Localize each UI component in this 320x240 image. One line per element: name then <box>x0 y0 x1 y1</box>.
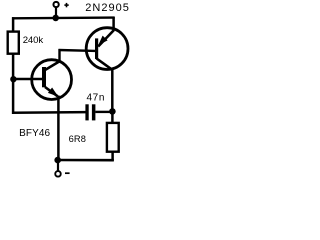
svg-text:47n: 47n <box>87 93 106 104</box>
wire Q2 collector vertical <box>111 69 114 112</box>
svg-text:2N2905: 2N2905 <box>85 2 130 14</box>
svg-text:6R8: 6R8 <box>69 134 87 144</box>
wire left vertical + bottom horizontal to capacitor <box>13 54 86 113</box>
wire 6R8 bottom to rail <box>111 152 114 162</box>
resistor R1 240k <box>8 32 19 54</box>
+ terminal <box>53 2 58 7</box>
svg-text:BFY46: BFY46 <box>19 128 50 139</box>
label - <box>65 172 70 174</box>
wire dot to 6R8 <box>111 111 114 122</box>
wire base of Q1 <box>13 78 43 81</box>
label + <box>64 3 68 7</box>
- terminal <box>57 160 59 171</box>
junction dot at - rail <box>54 157 61 164</box>
capacitor C1 47n <box>85 104 110 120</box>
wire bottom rail <box>57 159 114 162</box>
transistor Q1 BFY46 <box>32 60 72 100</box>
wire Q2 emitter from rail <box>112 17 115 30</box>
resistor R2 6R8 <box>107 123 119 152</box>
junction dot at + rail <box>52 15 59 22</box>
wire Q1 emitter vertical <box>57 96 60 161</box>
wire left vertical (rail to resistor) <box>12 17 15 31</box>
wire top rail <box>12 16 115 19</box>
junction dot collector node <box>109 108 116 115</box>
transistor Q2 2N2905 <box>86 28 128 70</box>
junction dot base node <box>10 76 16 82</box>
wire Q1 collector stub <box>58 49 60 62</box>
svg-text:240k: 240k <box>23 35 44 46</box>
wire Q1 collector to Q2 base <box>59 49 96 52</box>
